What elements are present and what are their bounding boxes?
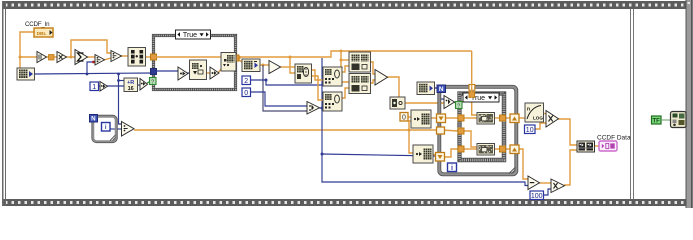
- wire loop i to divide: [110, 128, 121, 130]
- svg-text:N: N: [91, 116, 96, 123]
- for loop count terminal N: [437, 85, 446, 93]
- wire compare2 out: [319, 107, 322, 109]
- add node 1: [269, 61, 281, 74]
- comparison node to case1: [140, 79, 148, 91]
- numeric constant 1: [90, 82, 99, 91]
- small loop iteration terminal: [102, 123, 111, 132]
- case structure 2 selector label True: [463, 93, 499, 102]
- svg-text:?: ?: [457, 103, 460, 109]
- in-range node E: [390, 97, 405, 109]
- junction long wire x409: [408, 129, 411, 132]
- wire case2-to-pow2: [464, 148, 477, 150]
- junction scale16 branch: [117, 79, 120, 82]
- wire bus drop to rotate icon: [290, 57, 295, 73]
- junction bus at x87: [86, 73, 89, 76]
- array size node 2: [242, 59, 260, 72]
- wire i1-t2: [206, 72, 211, 74]
- wire subtract-to-mult2: [539, 182, 551, 184]
- multiply node 100: [551, 179, 565, 193]
- comparison to case2 selector: [444, 96, 455, 109]
- wire iconD-to-add2: [370, 80, 375, 83]
- wire array-size bus: [34, 73, 152, 74]
- tunnel blue in case1: [151, 69, 157, 75]
- wire const100-to-mult2: [543, 189, 551, 195]
- interleave arrays node: [128, 48, 146, 67]
- for loop resize corner: [509, 167, 516, 174]
- svg-text:0: 0: [402, 115, 406, 122]
- wire case2 tunnel to pow icon upper: [464, 117, 477, 119]
- wire t2-i2: [218, 69, 221, 73]
- junction iconE1 out: [262, 64, 265, 67]
- wire const2 run: [250, 80, 322, 85]
- index array I2 in case1: [221, 53, 236, 72]
- replace subset icon C: [349, 52, 371, 72]
- case structure 1 border: [152, 34, 236, 90]
- increment T2 in case1: [210, 67, 219, 79]
- wire divide output long run: [134, 129, 436, 131]
- loop tunnel upper (hollow): [437, 114, 446, 123]
- array size node: [17, 68, 35, 80]
- wire bus drop to iconD: [341, 51, 349, 82]
- case2 tunnel mid: [458, 128, 464, 134]
- wire loop-to-case2 tunnel upper: [445, 117, 458, 119]
- wire tri10-to-case2 selector: [454, 102, 457, 104]
- flat sequence border top: [2, 1, 693, 9]
- wire main double bus y57-y51: [239, 51, 472, 57]
- junction drop x341: [340, 59, 343, 62]
- replace subset icon D: [349, 74, 371, 94]
- wire add2 down to iconE2: [387, 77, 399, 98]
- wire iconB-to-iconD: [342, 88, 349, 98]
- wire iconA-to-iconC: [342, 66, 349, 72]
- junction x322 y154: [321, 153, 324, 156]
- wire interleave-to-case1 tunnel: [145, 56, 153, 58]
- wire to abs: [20, 56, 37, 58]
- svg-text:LOG: LOG: [533, 116, 543, 121]
- wire case1 inner blue: [156, 70, 178, 72]
- sequence frame divider: [630, 9, 634, 199]
- subVI I1 in case1: [190, 60, 207, 80]
- case1 selector terminal: [150, 78, 157, 86]
- increment node: [100, 82, 108, 92]
- wire const0 to compare2: [250, 92, 307, 106]
- svg-text:10: 10: [526, 127, 534, 134]
- numeric constant 0: [242, 88, 251, 97]
- wire to SR lower: [506, 148, 511, 150]
- conversion T1 in case1: [178, 67, 188, 80]
- wire pow2 out: [494, 148, 500, 150]
- wire y130 inside case2: [464, 131, 477, 147]
- wire div1-to-div2: [104, 58, 111, 60]
- subtract node: [528, 176, 540, 190]
- wire add1-to-rotate: [280, 66, 295, 68]
- svg-text:TF: TF: [653, 119, 661, 125]
- wire const10-to-mult: [534, 123, 546, 129]
- junction CCDF_In branch: [19, 56, 22, 59]
- wire buildarray-to-indicator: [594, 145, 599, 147]
- svg-text:CCDF_In: CCDF_In: [25, 21, 50, 28]
- wire long vertical and bottom run: [322, 58, 528, 186]
- wire i2-tunnel: [235, 57, 236, 59]
- case2 tunnel upper: [458, 115, 464, 121]
- wire t1-i1: [187, 72, 190, 74]
- array subset icon B: [323, 92, 342, 111]
- wire sum-to-div1: [87, 56, 95, 58]
- wire CCDF_In feed: [20, 32, 34, 70]
- wire increment-to-scale: [107, 85, 124, 87]
- wire scale-to-compare: [137, 84, 140, 86]
- wire bus up to div1 lower input: [87, 62, 94, 74]
- for loop iteration terminal i: [448, 163, 457, 172]
- divide node small loop: [122, 122, 135, 137]
- wire rotate-to-iconA: [311, 70, 323, 80]
- wire iconE1-to-add1: [259, 64, 269, 66]
- case2 out tunnel lower: [500, 146, 506, 152]
- power/scale icon lower in case2: [477, 144, 495, 156]
- wire loop out down to subtract: [518, 149, 528, 179]
- subVI icon right frame: [671, 112, 687, 128]
- loop tunnel upper glyph: [439, 117, 444, 121]
- wire const0b-to-iconG: [408, 116, 411, 118]
- divide node 1: [95, 55, 105, 66]
- wire size2-to-tri10: [434, 88, 444, 99]
- wire branch over to divide upper input: [71, 40, 111, 57]
- small for loop border: [92, 115, 118, 143]
- junction case1 out: [238, 56, 241, 59]
- wire loop tunnel2-to-case2: [443, 149, 458, 157]
- wire branch to scale16 upper input: [119, 80, 125, 82]
- wire y130 inside loop: [442, 130, 458, 131]
- wire case1 inner orange: [156, 56, 222, 58]
- boolean constant TF: [652, 116, 662, 125]
- wire SR-to-log icon: [518, 117, 525, 119]
- case2 out tunnel upper: [500, 115, 506, 121]
- divide node 2: [111, 51, 122, 62]
- case2 selector terminal: [456, 102, 463, 110]
- wire bus down to divide i: [119, 74, 123, 124]
- indicator terminal CCDF Data: [599, 141, 617, 151]
- junction bus x290: [289, 56, 292, 59]
- svg-text:i: i: [451, 165, 453, 172]
- multiply node dB: [546, 111, 559, 128]
- wire case1-to-iconE1: [236, 58, 242, 62]
- wire iconG-to-loop tunnel: [430, 117, 437, 119]
- wire case2-out-to-SR upper: [506, 117, 511, 119]
- case structure 2 border: [458, 92, 506, 162]
- wire iconC-to-add2: [370, 62, 375, 74]
- small loop N terminal: [90, 115, 98, 123]
- power/scale icon upper in case2: [477, 113, 495, 125]
- coercion dot div1: [92, 61, 95, 64]
- junction x322 y108: [321, 107, 324, 110]
- wire size2-to-N: [434, 87, 438, 89]
- index array icon G: [411, 110, 431, 128]
- for loop border: [438, 85, 518, 176]
- unit cast (small orange box): [49, 55, 55, 61]
- numeric constant 10: [525, 125, 536, 134]
- junction const2: [265, 79, 268, 82]
- svg-text:1: 1: [92, 84, 96, 91]
- array subset icon A: [323, 67, 342, 86]
- small loop resize corner: [110, 135, 116, 141]
- absolute value node: [37, 52, 47, 63]
- loop out tunnel lower: [510, 145, 519, 154]
- flat sequence border left: [2, 1, 6, 206]
- wire branch down to index icon H: [409, 130, 413, 153]
- svg-text:n: n: [527, 107, 530, 113]
- svg-text:16: 16: [128, 86, 134, 92]
- numeric constant 2: [242, 76, 251, 85]
- flat sequence border right: [686, 0, 693, 208]
- logarithm icon: [525, 103, 544, 122]
- index array icon H: [413, 145, 433, 163]
- wire bus down into case2: [472, 51, 477, 115]
- wire dark to compare2 lower: [263, 65, 307, 111]
- wire iconH-to-loop tunnel2: [432, 153, 436, 156]
- quotient remainder node: [307, 102, 320, 115]
- wire log-to-mult: [543, 113, 546, 114]
- wire iconE2-to-tri10: [405, 102, 444, 104]
- loop top tunnel (hollow): [469, 85, 475, 91]
- loop out tunnel upper: [510, 114, 519, 123]
- rotate array node: [295, 64, 312, 83]
- wire y154 run to loop tunnel: [322, 154, 436, 156]
- add node 2: [375, 70, 388, 86]
- wire const1-to-increment: [98, 85, 100, 87]
- svg-text:?: ?: [151, 79, 154, 85]
- add array elements node: [75, 50, 88, 65]
- tunnel orange out case1: [233, 55, 239, 61]
- wire multiply-to-sum: [66, 56, 75, 58]
- wire TF to subVI: [661, 119, 671, 121]
- loop tunnel lower: [436, 153, 445, 162]
- wire drop to iconC: [341, 59, 349, 61]
- junction bus at x117: [117, 73, 120, 76]
- array size node 3: [417, 82, 435, 95]
- build array node: [577, 141, 595, 152]
- svg-text:N: N: [439, 86, 444, 93]
- svg-text:DBL: DBL: [37, 31, 47, 37]
- case2 tunnel lower: [458, 146, 464, 152]
- multiply node 1: [57, 52, 67, 63]
- junction bus x341: [340, 50, 343, 53]
- wire mult2-to-buildarray lower: [564, 150, 577, 185]
- control terminal CCDF_In: [34, 28, 53, 37]
- svg-text:2: 2: [244, 78, 248, 85]
- junction at multiply input: [70, 56, 73, 59]
- svg-text:True: True: [183, 32, 197, 39]
- wire mult-to-buildarray upper: [558, 119, 577, 145]
- wire compare-to-case1 selector: [147, 81, 151, 83]
- loop tunnel mid (hollow): [437, 127, 445, 134]
- numeric constant 0 (orange): [400, 113, 408, 122]
- svg-text:100: 100: [531, 193, 543, 200]
- scale by 16 node: [124, 78, 138, 92]
- numeric constant 100: [530, 191, 544, 200]
- tunnel orange in case1: [151, 54, 157, 60]
- wire branch up to index icon G: [409, 121, 411, 130]
- wire pow-to-out tunnel upper: [494, 117, 500, 119]
- wire abs-to-multiply: [46, 56, 57, 58]
- case2 top tunnel: [469, 92, 475, 98]
- wire through top tunnels: [471, 84, 473, 98]
- wire rotate-to-iconB: [311, 76, 323, 100]
- case structure 1 selector label True: [176, 30, 211, 39]
- wire div2-to-interleave: [121, 55, 128, 57]
- flat sequence border bottom: [2, 199, 693, 206]
- svg-text:0: 0: [244, 90, 248, 97]
